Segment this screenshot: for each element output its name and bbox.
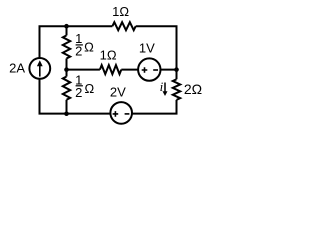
wire branch middle: between the two half-ohm resistors (66, 59, 68, 77)
svg-text:Ω: Ω (84, 39, 94, 54)
resistor upper 1/2 ohm vertical zigzag (63, 35, 70, 58)
wire middle-right: 1V source to right wire (160, 69, 176, 71)
svg-text:1V: 1V (139, 41, 155, 56)
svg-text:2: 2 (75, 85, 82, 100)
svg-text:1Ω: 1Ω (100, 47, 117, 62)
svg-text:2: 2 (75, 44, 82, 59)
plus sign inside 1V (142, 67, 148, 73)
junction node dot bottom of branch (64, 111, 69, 116)
wire middle: resistor to 1V source (121, 69, 138, 71)
svg-text:2V: 2V (110, 85, 126, 100)
svg-text:i: i (160, 79, 164, 94)
current source I1 2A circle (29, 58, 50, 79)
label 1/2 ohm fraction (lower resistor) (75, 72, 94, 100)
voltage source V1 1V circle (138, 58, 160, 80)
label 1/2 ohm fraction (upper resistor) (75, 31, 94, 59)
arrow inside 2A current source (39, 65, 41, 77)
wire top-left: from top of 2A source up and right to top resistor (40, 26, 113, 58)
wire bottom-left: 2V source to bottom-left corner up to 2A source (40, 79, 111, 114)
junction node dot right wire middle (174, 67, 179, 72)
resistor middle 1ohm zigzag (100, 65, 121, 74)
resistor R top 1ohm zigzag (112, 22, 135, 30)
minus sign inside 2V (125, 113, 130, 115)
wire right-bottom: below 2ohm to bottom-right corner to 2V source (132, 100, 177, 114)
voltage source V2 2V circle (110, 102, 132, 124)
junction node dot top of branch (64, 24, 69, 29)
wire branch upper lead: top wire down to upper half-ohm (66, 26, 68, 35)
svg-text:Ω: Ω (85, 81, 95, 96)
svg-text:1Ω: 1Ω (112, 4, 129, 19)
svg-text:2A: 2A (9, 61, 25, 76)
wire top-right: resistor to top-right corner down right side (136, 26, 177, 79)
resistor 2ohm vertical zigzag right side (173, 79, 180, 100)
resistor lower 1/2 ohm vertical zigzag (63, 77, 70, 100)
minus sign inside 1V (153, 69, 158, 71)
wire middle-left: branch node to middle resistor (67, 69, 100, 71)
junction node dot middle of branch (64, 67, 69, 72)
wire branch lower lead: to bottom wire (66, 100, 68, 114)
svg-text:2Ω: 2Ω (184, 81, 202, 97)
current arrow i on right branch (164, 83, 166, 93)
plus sign inside 2V (113, 111, 119, 117)
